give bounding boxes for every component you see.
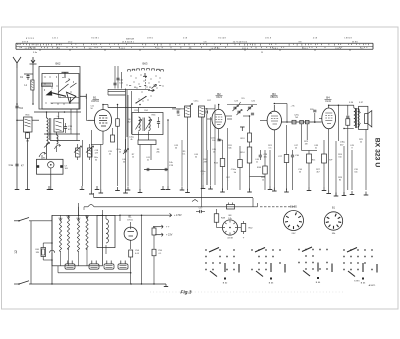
svg-text:25: 25 — [261, 52, 263, 54]
wire — [210, 117, 212, 185]
wire — [94, 206, 258, 208]
core line — [50, 118, 52, 140]
ground — [181, 187, 183, 191]
wire — [138, 108, 140, 113]
B+ arrow 2 — [155, 226, 160, 228]
wire bus — [108, 88, 150, 90]
wire — [125, 139, 127, 150]
ground — [323, 187, 325, 191]
wire — [217, 227, 223, 229]
svg-text:TC2: TC2 — [19, 107, 24, 110]
wire — [32, 64, 34, 77]
core line — [49, 118, 51, 140]
capacitor — [248, 106, 251, 108]
svg-text:43 38: 43 38 — [227, 238, 233, 240]
resistor — [26, 133, 30, 139]
ground — [117, 187, 119, 191]
tuning gang box — [37, 159, 64, 174]
rectifier tube B5 — [124, 227, 137, 240]
wire — [219, 139, 223, 141]
wire — [222, 140, 224, 159]
wire bus — [108, 94, 126, 96]
wire — [32, 90, 34, 104]
wire — [286, 163, 288, 191]
capacitor — [157, 121, 160, 123]
svg-text:5n: 5n — [315, 148, 317, 150]
svg-text:+ 23V: + 23V — [166, 234, 173, 237]
arrow right — [148, 89, 154, 92]
wire — [238, 227, 242, 229]
svg-text:24 7 6 16 8 10 4: 24 7 6 16 8 10 4 — [233, 41, 248, 43]
coil L2 box — [24, 117, 33, 132]
wire — [165, 284, 167, 287]
IF transformer box S13 — [132, 113, 163, 135]
coil L1 — [31, 80, 34, 90]
switch contact dots B62 — [44, 76, 45, 77]
terminal block right — [60, 165, 63, 168]
svg-text:8 3: 8 3 — [361, 48, 364, 50]
ground — [139, 189, 141, 193]
mains switch top — [18, 220, 20, 222]
wire — [273, 140, 275, 190]
svg-text:3 8 8 1: 3 8 8 1 — [302, 48, 308, 50]
label underline — [93, 98, 100, 100]
wire — [323, 163, 325, 187]
svg-text:B1-B5: B1-B5 — [290, 206, 297, 209]
coupling cap block — [292, 120, 296, 124]
svg-text:Fig.3: Fig.3 — [180, 290, 192, 296]
wire — [101, 143, 103, 145]
wire up to schematic — [78, 203, 80, 215]
trimmer C18 — [88, 148, 93, 157]
wire B3 cathode — [273, 130, 275, 140]
wire — [141, 215, 143, 284]
electrolytic C51 — [89, 264, 99, 269]
coil S15 — [185, 106, 191, 117]
resistor — [152, 228, 156, 235]
svg-text:C10a: C10a — [231, 169, 237, 171]
svg-text:UBC21: UBC21 — [270, 96, 278, 99]
wire bus — [108, 91, 126, 93]
resistor — [220, 159, 225, 167]
IF coil primary — [139, 117, 141, 131]
wire B4 grid — [319, 117, 322, 119]
svg-text:A 9671: A 9671 — [369, 284, 377, 287]
svg-text:1 8 4 8: 1 8 4 8 — [335, 48, 341, 50]
coil L4 box — [54, 119, 64, 132]
ground — [27, 186, 29, 190]
wire — [44, 133, 80, 135]
inner line — [51, 102, 80, 104]
resistor — [248, 133, 252, 142]
svg-text:UL41: UL41 — [325, 100, 331, 103]
coil — [47, 118, 49, 144]
wire — [329, 104, 339, 106]
wire anode run — [274, 103, 287, 105]
resistor — [284, 155, 289, 163]
wire — [214, 105, 216, 109]
ground — [50, 186, 52, 190]
wire — [358, 109, 361, 114]
antenna ground arrow — [30, 57, 37, 64]
wire — [51, 215, 53, 243]
svg-text:8k: 8k — [339, 180, 341, 182]
wire — [121, 72, 123, 89]
switch shaft stub B62 — [64, 72, 66, 78]
mains switch bottom — [18, 283, 20, 285]
capacitor C1 — [26, 75, 29, 77]
wire — [158, 117, 160, 122]
svg-text:1 8 5: 1 8 5 — [56, 48, 60, 50]
junction dots — [16, 119, 18, 121]
dropper resistor R53 — [86, 219, 88, 250]
filter choke S50 — [97, 215, 115, 247]
wire — [286, 104, 288, 123]
switch box B62 inner — [42, 74, 79, 110]
wire — [17, 119, 23, 121]
ground — [100, 190, 102, 194]
inner line — [59, 97, 80, 99]
wire — [269, 150, 271, 186]
dial lamp 2 — [50, 250, 55, 253]
wire B4 cathode — [328, 129, 330, 190]
ground — [222, 189, 224, 193]
wire B1 cathode — [102, 131, 104, 140]
wire — [358, 123, 361, 128]
junction — [130, 283, 131, 284]
resistor block R27 — [305, 120, 309, 123]
svg-text:3 8: 3 8 — [89, 48, 92, 50]
wire — [153, 235, 155, 249]
output pentode B4 — [322, 108, 336, 129]
wire B2 cathode — [218, 129, 220, 140]
wire — [337, 105, 339, 141]
svg-text:1k: 1k — [262, 180, 264, 182]
wire — [41, 155, 43, 159]
wire — [335, 141, 337, 196]
dial-cord strip — [16, 42, 373, 44]
ground — [167, 186, 169, 190]
capacitor C22 — [176, 110, 178, 113]
wire — [51, 253, 53, 260]
switch wafer B63 contacts — [128, 70, 131, 72]
svg-text:4 1 8: 4 1 8 — [313, 38, 317, 40]
svg-text:1 4 3 1 8 8: 1 4 3 1 8 8 — [211, 48, 220, 50]
ground — [90, 191, 92, 195]
ground left — [16, 186, 18, 190]
wire — [227, 128, 229, 190]
wire — [77, 157, 79, 160]
wire — [93, 193, 95, 197]
wire — [227, 118, 232, 120]
wire — [117, 66, 119, 89]
capacitor — [116, 77, 119, 79]
ground — [125, 190, 127, 194]
capacitor — [113, 82, 116, 84]
wire — [250, 176, 266, 178]
svg-text:12: 12 — [14, 250, 18, 254]
wire arrow to B1 grid — [85, 96, 87, 120]
coil — [57, 135, 59, 144]
capacitor C32 — [313, 109, 316, 111]
wire — [264, 150, 266, 166]
svg-text:2M: 2M — [204, 162, 207, 164]
svg-text:+ +: + + — [166, 226, 170, 229]
wire bus between B2 B3 — [227, 104, 257, 106]
capacitor — [164, 168, 166, 171]
rotary switch arms in B62 — [50, 92, 66, 96]
core line — [355, 108, 357, 128]
wire B4 anode — [328, 105, 330, 108]
wire — [68, 248, 70, 266]
wire — [205, 108, 216, 110]
wire — [214, 109, 216, 185]
small box below — [138, 140, 156, 145]
svg-text:24V: 24V — [292, 233, 296, 235]
resistor — [111, 135, 115, 142]
dropper resistor R50 — [59, 221, 61, 252]
wire — [58, 112, 60, 119]
wire — [202, 117, 204, 185]
B63 scattered contact dots — [131, 76, 132, 77]
svg-text:20k: 20k — [156, 152, 159, 154]
ground — [81, 186, 83, 190]
ground — [210, 186, 212, 190]
wire — [117, 126, 119, 186]
wire — [131, 91, 133, 134]
wire left column — [16, 104, 18, 186]
svg-text:50k: 50k — [228, 148, 231, 150]
svg-text:+ 170V: + 170V — [174, 214, 182, 217]
junction — [51, 283, 52, 284]
coil — [354, 108, 356, 126]
wire — [82, 140, 84, 186]
svg-text:BX 323 U: BX 323 U — [374, 138, 381, 168]
wire — [201, 117, 203, 190]
switch wafer detail B 62 — [205, 249, 206, 250]
svg-text:C1a: C1a — [9, 164, 14, 167]
coil S16 — [199, 106, 205, 117]
svg-text:B 62: B 62 — [223, 283, 228, 285]
capacitor — [291, 154, 294, 156]
wire corner below B1 — [91, 143, 101, 145]
wire — [50, 168, 52, 186]
capacitor C24 — [205, 110, 207, 113]
wire — [83, 207, 85, 210]
wire — [167, 170, 169, 187]
wire — [86, 248, 88, 266]
wire — [206, 150, 208, 185]
wire — [56, 132, 58, 135]
wire — [323, 140, 325, 154]
wire — [32, 119, 39, 121]
wire — [347, 125, 349, 190]
svg-text:2n: 2n — [147, 160, 149, 162]
svg-text:1 4 1 1: 1 4 1 1 — [52, 38, 58, 40]
wire mains top — [29, 220, 52, 222]
wire — [196, 211, 200, 213]
wire — [252, 198, 254, 207]
ground — [351, 191, 353, 195]
ground — [286, 189, 288, 193]
resistor — [307, 154, 312, 163]
wire under B62 — [34, 111, 81, 113]
ground — [202, 185, 204, 189]
antenna A1 — [13, 57, 21, 68]
svg-text:B 63: B 63 — [269, 283, 274, 285]
wire — [150, 145, 152, 161]
svg-text:8 1 3 8 1: 8 1 3 8 1 — [91, 38, 98, 40]
svg-text:1k: 1k — [132, 157, 134, 159]
svg-text:1 4 8 2: 1 4 8 2 — [119, 48, 125, 50]
wire — [226, 115, 233, 117]
dropper terminals — [60, 219, 62, 221]
wire — [302, 150, 317, 152]
capacitor C57 — [199, 210, 201, 213]
svg-text:4 8 5 8: 4 8 5 8 — [22, 41, 29, 43]
wire — [43, 259, 52, 261]
switch box B62 outer — [39, 67, 80, 110]
wire — [264, 174, 266, 190]
wire — [353, 105, 355, 108]
wire — [57, 266, 59, 273]
resistor — [322, 154, 327, 163]
wire — [70, 109, 72, 134]
wire — [222, 167, 224, 191]
wire hop — [88, 205, 94, 207]
svg-text:R1k: R1k — [312, 160, 316, 162]
resistor block R26 — [300, 120, 304, 123]
trimmer C17 — [76, 148, 81, 157]
speaker box — [359, 106, 368, 129]
svg-text:21 8 15 0 8 1: 21 8 15 0 8 1 — [122, 41, 135, 43]
wire — [206, 150, 208, 185]
wire — [117, 104, 119, 119]
svg-text:4 8: 4 8 — [189, 48, 192, 50]
wire — [365, 130, 367, 191]
core line — [143, 118, 145, 132]
capacitor — [346, 115, 349, 117]
wire cap bus — [58, 272, 130, 274]
svg-text:18 8 3: 18 8 3 — [272, 48, 277, 50]
svg-text:1M: 1M — [305, 144, 308, 146]
wire B2 anode — [218, 105, 220, 110]
svg-text:1k: 1k — [119, 152, 121, 154]
label plate inside B62 — [42, 83, 53, 87]
wire — [344, 128, 354, 130]
tuning arrow C8 — [39, 152, 46, 157]
wire — [292, 150, 294, 155]
IF coil secondary — [149, 117, 151, 131]
pentode tube B2 — [212, 109, 226, 128]
wire — [86, 119, 94, 121]
wire — [239, 146, 241, 160]
double-diode-triode tube B3 — [267, 111, 281, 130]
junction — [343, 128, 344, 129]
wire — [201, 211, 205, 213]
resistance wire mark — [192, 200, 198, 202]
wire — [24, 73, 33, 75]
wire B1 anode out — [103, 104, 108, 106]
svg-text:B 65: B 65 — [361, 283, 366, 285]
switch arm wedge — [67, 92, 77, 102]
wire — [257, 203, 259, 207]
wire — [158, 123, 160, 128]
svg-text:10n: 10n — [354, 172, 357, 174]
dial strip tick marks — [17, 44, 19, 45]
wire — [148, 132, 150, 141]
wire — [107, 89, 109, 95]
electrolytic C52 — [104, 264, 114, 269]
coil — [106, 219, 108, 243]
wire — [249, 163, 251, 190]
wire — [42, 257, 44, 261]
wire — [125, 152, 127, 190]
wire B1 grid — [88, 119, 95, 121]
wire — [130, 222, 132, 227]
capacitor C24a — [217, 138, 220, 140]
ground — [249, 189, 251, 193]
tuning arrow — [146, 120, 152, 130]
wire — [153, 227, 155, 228]
pilot tube socket — [222, 220, 237, 235]
svg-text:5 1 4 7 8 1 3: 5 1 4 7 8 1 3 — [25, 48, 36, 50]
wire B1 anode — [102, 105, 104, 110]
wire — [127, 95, 129, 186]
wire — [50, 140, 80, 142]
wire — [43, 242, 52, 244]
wire — [138, 132, 140, 141]
wire — [27, 74, 29, 76]
wire — [139, 145, 141, 191]
terminal block left — [37, 165, 40, 168]
resistor — [238, 160, 243, 168]
ground — [48, 186, 50, 190]
capacitor — [146, 168, 148, 171]
svg-text:1 8 8 1: 1 8 8 1 — [147, 38, 153, 40]
wire — [101, 210, 103, 215]
wire — [112, 128, 114, 135]
wire — [167, 120, 169, 170]
wire — [243, 115, 250, 117]
core line — [356, 108, 358, 128]
svg-text:8 1 1 4 8: 8 1 1 4 8 — [218, 38, 225, 40]
wire mains bottom — [29, 283, 166, 285]
wire — [292, 157, 294, 190]
resistor — [247, 147, 252, 163]
svg-text:8 3: 8 3 — [157, 48, 160, 50]
junction — [314, 121, 316, 123]
voltage dropper network box — [52, 215, 102, 265]
wire — [306, 124, 308, 140]
resistor — [263, 166, 268, 174]
junction — [153, 283, 154, 284]
B63 wafer lower dashes — [129, 85, 131, 87]
wire — [78, 251, 80, 266]
wire B3 to B4 — [281, 121, 322, 123]
wire — [308, 163, 310, 187]
ground — [269, 186, 271, 190]
capacitor C1a — [15, 163, 18, 165]
wire — [351, 150, 353, 190]
wire — [32, 77, 34, 80]
tube socket view B1-B5 — [284, 211, 304, 231]
svg-text:2k: 2k — [360, 142, 362, 144]
resistor — [214, 214, 219, 223]
label underline — [325, 98, 332, 100]
wire — [249, 142, 251, 147]
ground — [164, 286, 168, 288]
